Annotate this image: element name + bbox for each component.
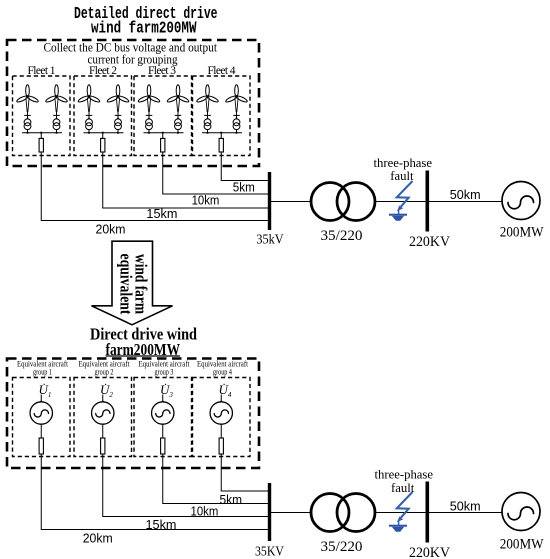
svg-text:10km: 10km (192, 193, 220, 207)
svg-text:10km: 10km (191, 505, 219, 519)
svg-text:U̇2: U̇2 (100, 382, 113, 399)
svg-text:Fleet 4: Fleet 4 (208, 65, 236, 77)
svg-text:Fleet 2: Fleet 2 (89, 65, 117, 77)
svg-text:group 3: group 3 (155, 367, 174, 377)
svg-text:200MW: 200MW (500, 537, 544, 553)
svg-text:50km: 50km (450, 499, 481, 513)
svg-text:220KV: 220KV (409, 545, 450, 559)
svg-text:5km: 5km (233, 181, 255, 195)
svg-text:group 4: group 4 (213, 367, 233, 377)
svg-text:U̇4: U̇4 (219, 382, 232, 399)
svg-text:50km: 50km (450, 188, 481, 202)
svg-text:35/220: 35/220 (321, 539, 363, 555)
svg-text:Fleet 1: Fleet 1 (28, 65, 56, 77)
svg-text:wind farm200MW: wind farm200MW (91, 19, 197, 38)
svg-text:35/220: 35/220 (321, 228, 363, 244)
svg-text:15km: 15km (146, 518, 177, 532)
svg-text:35kV: 35kV (256, 233, 283, 248)
svg-text:220KV: 220KV (409, 234, 450, 250)
svg-text:equivalent: equivalent (117, 254, 136, 315)
svg-text:fault: fault (390, 169, 414, 183)
svg-text:three-phase: three-phase (375, 468, 434, 482)
svg-text:group 2: group 2 (95, 367, 114, 377)
svg-text:15km: 15km (146, 207, 177, 221)
svg-text:fault: fault (391, 481, 415, 495)
svg-text:Fleet 3: Fleet 3 (148, 65, 176, 77)
svg-text:group 1: group 1 (33, 367, 52, 377)
svg-text:U̇3: U̇3 (160, 382, 173, 399)
svg-text:35KV: 35KV (255, 545, 284, 559)
svg-text:200MW: 200MW (500, 225, 544, 241)
svg-text:20km: 20km (96, 222, 126, 236)
svg-text:three-phase: three-phase (374, 156, 433, 170)
svg-text:5km: 5km (220, 493, 243, 507)
svg-text:20km: 20km (83, 532, 113, 546)
svg-text:U̇1: U̇1 (39, 382, 52, 399)
